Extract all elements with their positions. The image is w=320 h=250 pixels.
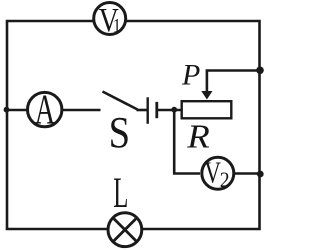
svg-text:A: A — [35, 86, 56, 133]
svg-text:P: P — [181, 60, 200, 92]
svg-text:2: 2 — [220, 167, 230, 192]
svg-text:L: L — [113, 169, 128, 217]
svg-text:S: S — [109, 108, 130, 157]
svg-text:V: V — [204, 155, 221, 189]
svg-text:1: 1 — [113, 14, 121, 36]
svg-text:R: R — [186, 118, 210, 155]
